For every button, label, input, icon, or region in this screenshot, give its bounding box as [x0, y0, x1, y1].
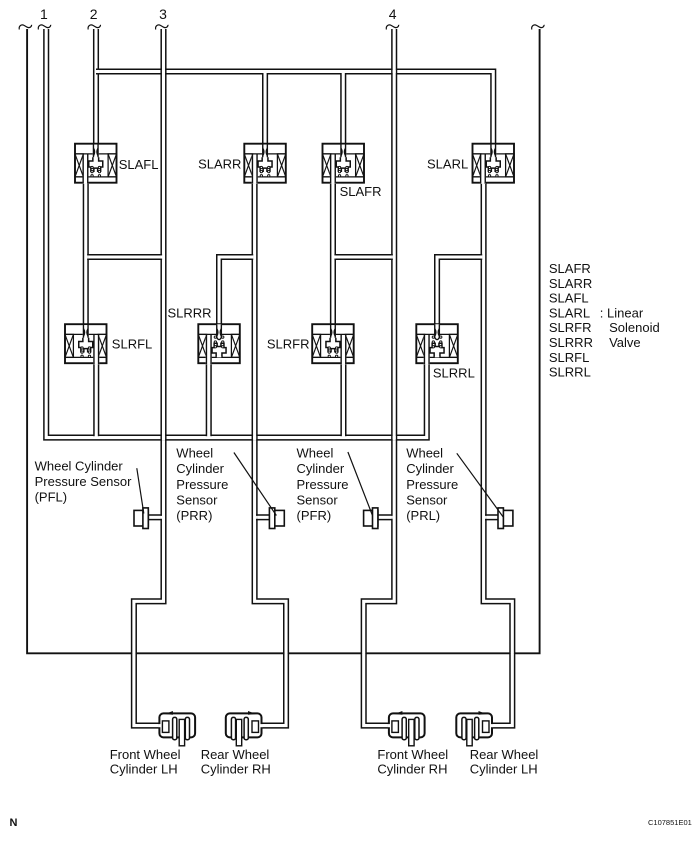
svg-text:(PRL): (PRL)	[406, 508, 440, 523]
line-break ticks at top	[19, 25, 31, 30]
svg-text:SLARL: SLARL	[427, 156, 468, 171]
pipe: branch from SLARL line to SLRRL input	[435, 255, 482, 327]
svg-text:Pressure: Pressure	[297, 477, 349, 492]
pipe: reservoir line 1 + return manifold + SLRRL output riser	[44, 29, 429, 440]
svg-text:Cylinder LH: Cylinder LH	[110, 762, 178, 777]
svg-text:SLRFR: SLRFR	[267, 336, 310, 351]
svg-text:Cylinder: Cylinder	[406, 461, 454, 476]
svg-text:SLARR: SLARR	[549, 276, 592, 291]
svg-text:SLRRL: SLRRL	[549, 365, 591, 380]
svg-text:C107851E01: C107851E01	[648, 818, 692, 827]
svg-text:(PFL): (PFL)	[35, 490, 68, 505]
pipe: branch from SLARR line to SLRRR input	[217, 255, 253, 327]
pipe: drop to SLARR input	[263, 73, 268, 146]
svg-text:Wheel: Wheel	[176, 446, 213, 461]
svg-text:Front Wheel: Front Wheel	[110, 747, 181, 762]
pipe: master line 4 down, jog left, into Front Wheel Cylinder RH	[361, 29, 396, 728]
svg-text:SLRRL: SLRRL	[433, 365, 475, 380]
wheel cylinder Front Wheel Cylinder LH	[158, 711, 195, 746]
svg-text:SLAFL: SLAFL	[119, 157, 159, 172]
svg-text:SLRFL: SLRFL	[112, 336, 152, 351]
svg-text:SLARR: SLARR	[198, 156, 241, 171]
svg-text:Sensor: Sensor	[406, 492, 448, 507]
pipe: H-bar joining FR valve line to line 4	[334, 255, 392, 260]
sensor tap stubs	[149, 515, 162, 520]
pipe: SLRFL output to return manifold	[94, 360, 99, 436]
solenoid valve SLARR	[244, 144, 285, 184]
svg-text:Rear Wheel: Rear Wheel	[201, 747, 270, 762]
svg-text:SLAFL: SLAFL	[549, 291, 589, 306]
svg-text:SLRFL: SLRFL	[549, 350, 589, 365]
svg-text:4: 4	[389, 6, 397, 22]
pipe: SLARL output down, jog right, into Rear Wheel Cylinder LH	[481, 180, 514, 728]
solenoid valve SLRFL	[65, 324, 107, 364]
svg-text:Cylinder RH: Cylinder RH	[201, 762, 271, 777]
svg-text:1: 1	[40, 6, 48, 22]
svg-text:Wheel: Wheel	[406, 446, 443, 461]
pipe: master line 3 down, jog left, into Front Wheel Cylinder LH	[132, 29, 166, 728]
svg-text:2: 2	[90, 6, 98, 22]
svg-text:Valve: Valve	[609, 335, 641, 350]
pressure sensor PRL	[498, 508, 513, 529]
outer box border	[27, 29, 540, 653]
solenoid valve SLAFR	[323, 144, 365, 184]
solenoid valve SLRRL	[416, 324, 458, 364]
leader line PFR	[348, 452, 372, 515]
pipe: H-bar joining FL valve line to line 3	[87, 255, 162, 260]
svg-text:(PRR): (PRR)	[176, 508, 212, 523]
svg-text:Pressure: Pressure	[406, 477, 458, 492]
pressure sensor PFR	[364, 508, 378, 529]
pipe: accumulator line 2 down to SLAFL input	[94, 29, 99, 146]
solenoid valve SLAFL	[75, 144, 117, 184]
leader line PFL	[137, 468, 144, 513]
svg-text:SLAFR: SLAFR	[340, 184, 382, 199]
svg-text:SLAFR: SLAFR	[549, 261, 591, 276]
svg-text:N: N	[10, 817, 18, 829]
svg-text:: Linear: : Linear	[600, 305, 644, 320]
wheel cylinder Rear Wheel Cylinder LH	[456, 711, 493, 746]
svg-text:Wheel: Wheel	[297, 446, 334, 461]
svg-text:SLRRR: SLRRR	[168, 306, 212, 321]
svg-text:Sensor: Sensor	[176, 492, 218, 507]
pressure sensor PRR	[269, 508, 284, 529]
leader line PRR	[234, 453, 277, 516]
pipe: SLARR output down, jog right, into Rear Wheel Cylinder RH	[252, 180, 288, 728]
pipe: SLRFR output to return manifold	[341, 360, 346, 436]
svg-text:Front Wheel: Front Wheel	[377, 747, 448, 762]
solenoid valve SLRRR	[198, 324, 240, 364]
svg-text:Pressure Sensor: Pressure Sensor	[35, 474, 132, 489]
pipe: drop to SLAFR input	[341, 73, 346, 146]
svg-text:Cylinder LH: Cylinder LH	[470, 762, 538, 777]
solenoid valve SLRFR	[312, 324, 354, 364]
svg-text:3: 3	[159, 6, 167, 22]
wheel cylinder Front Wheel Cylinder RH	[388, 711, 425, 746]
svg-text:Cylinder RH: Cylinder RH	[377, 762, 447, 777]
leader line PRL	[457, 453, 503, 517]
solenoid valve SLARL	[473, 144, 515, 184]
wheel cylinder Rear Wheel Cylinder RH	[226, 711, 263, 746]
svg-text:Cylinder: Cylinder	[297, 461, 345, 476]
tee junction gaps	[87, 70, 486, 519]
pipe: SLAFR output down to SLRFR input	[331, 180, 336, 327]
svg-text:SLRRR: SLRRR	[549, 335, 593, 350]
svg-text:SLARL: SLARL	[549, 305, 590, 320]
svg-text:Sensor: Sensor	[297, 492, 339, 507]
pressure sensor PFL	[134, 508, 148, 529]
svg-text:Solenoid: Solenoid	[609, 320, 660, 335]
svg-text:Wheel Cylinder: Wheel Cylinder	[35, 459, 124, 474]
pipe: SLRRR output to return manifold	[206, 360, 211, 436]
svg-text:(PFR): (PFR)	[297, 508, 332, 523]
svg-text:SLRFR: SLRFR	[549, 320, 592, 335]
svg-text:Rear Wheel: Rear Wheel	[470, 747, 539, 762]
svg-text:Pressure: Pressure	[176, 477, 228, 492]
crossing gaps	[132, 68, 513, 654]
svg-text:Cylinder: Cylinder	[176, 461, 224, 476]
pipe: top supply manifold with corner drop to SLARL input	[96, 69, 496, 146]
pipe: SLAFL output down to SLRFL input	[83, 180, 88, 327]
